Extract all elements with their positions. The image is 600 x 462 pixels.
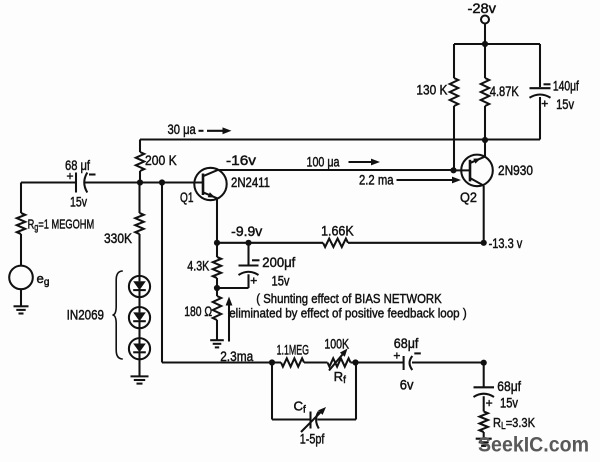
current label 30ua <box>168 122 232 137</box>
svg-text:100K: 100K <box>324 337 349 352</box>
transistor Q1 2N2411 <box>180 168 270 205</box>
svg-text:+: + <box>67 169 74 183</box>
capacitor 140uf <box>530 44 580 140</box>
wire 30ua feedback rail <box>140 137 540 143</box>
svg-text:180 Ω: 180 Ω <box>184 304 212 319</box>
wire Q2 collector <box>484 140 486 157</box>
svg-text:IN2069: IN2069 <box>67 308 104 323</box>
resistor 330K <box>104 183 144 277</box>
resistor 1.66K <box>321 224 354 247</box>
svg-text:-28v: -28v <box>468 1 497 16</box>
capacitor Cf variable 1-5pf <box>294 399 327 447</box>
note text <box>229 291 467 320</box>
svg-text:200 K: 200 K <box>145 153 177 168</box>
capacitor 68uf input <box>65 158 96 210</box>
resistor 180ohm <box>184 288 221 340</box>
svg-text:SeekIC.com: SeekIC.com <box>478 433 589 457</box>
svg-text:30 μa: 30 μa <box>168 122 197 137</box>
svg-text:-13.3 v: -13.3 v <box>489 236 523 251</box>
wire top rail <box>454 41 540 47</box>
resistor Rg 1 MEGOHM <box>17 183 94 266</box>
svg-text:+: + <box>393 349 400 363</box>
ground under eg <box>14 306 29 313</box>
capacitor 68uf 15v output <box>474 379 522 412</box>
diode 1N2069 D3 <box>129 338 150 359</box>
svg-text:100 μa: 100 μa <box>307 155 340 170</box>
svg-text:15v: 15v <box>70 195 87 210</box>
ground under 180ohm <box>210 340 224 347</box>
current label 100ua <box>307 155 381 170</box>
svg-text:Rg=1 MEGOHM: Rg=1 MEGOHM <box>28 218 95 234</box>
wire output drop <box>483 363 485 387</box>
label IN2069 with brace <box>67 271 123 359</box>
capacitor 68uf 6v <box>393 336 486 393</box>
resistor 130K <box>416 44 458 170</box>
svg-text:15v: 15v <box>272 274 290 289</box>
label -9.9v <box>231 224 262 239</box>
resistor 4.3K <box>187 243 221 291</box>
wire input rail <box>21 179 203 185</box>
wire -9.9v rail <box>214 240 487 246</box>
resistor 1.1MEG <box>277 343 328 367</box>
svg-text:eliminated by effect of po: eliminated by effect of positive feedbac… <box>229 305 467 320</box>
svg-text:6v: 6v <box>400 378 414 393</box>
svg-text:2N930: 2N930 <box>498 163 533 178</box>
wire diode link <box>138 297 140 307</box>
svg-text:1.66K: 1.66K <box>321 224 354 239</box>
svg-text:+: + <box>541 96 548 110</box>
svg-text:330K: 330K <box>104 231 132 246</box>
current arrow 2.3ma up <box>226 297 233 342</box>
resistor 200K <box>136 140 177 183</box>
svg-text:2.2 ma: 2.2 ma <box>359 173 394 188</box>
source eg <box>9 266 49 306</box>
wire supply drop <box>484 24 486 45</box>
label -16v <box>226 153 256 168</box>
resistor RL 3.3K <box>480 412 536 438</box>
wire Q1 emitter <box>216 199 218 243</box>
wire Q1 collector rail <box>218 167 470 173</box>
ground under RL <box>476 439 492 446</box>
wire left feedback drop <box>161 183 163 363</box>
svg-text:200μf: 200μf <box>262 255 295 270</box>
svg-text:1-5pf: 1-5pf <box>300 432 325 447</box>
svg-text:140μf: 140μf <box>553 79 579 94</box>
svg-text:2.3ma: 2.3ma <box>220 349 253 364</box>
ground under diode chain <box>131 376 149 383</box>
svg-text:2N2411: 2N2411 <box>231 175 270 190</box>
svg-text:Q2: Q2 <box>460 190 477 205</box>
svg-text:Q1: Q1 <box>180 190 194 205</box>
svg-text:+: + <box>250 274 257 288</box>
wire Cf loop <box>272 363 356 420</box>
current label 2.3ma <box>220 349 253 364</box>
capacitor 200uf <box>217 243 296 289</box>
label -13.3v <box>489 236 523 251</box>
diode 1N2069 D2 <box>129 307 150 328</box>
svg-text:( Shunting effect of BIAS N: ( Shunting effect of BIAS NETWORK <box>256 291 442 306</box>
resistor Rf 100K variable <box>324 337 403 387</box>
svg-text:15v: 15v <box>556 97 574 112</box>
transistor Q2 2N930 <box>460 155 533 205</box>
watermark SeekIC.com <box>478 433 589 457</box>
svg-text:4.87K: 4.87K <box>490 84 519 99</box>
wire bottom rail left <box>162 359 281 365</box>
svg-text:130 K: 130 K <box>416 82 447 97</box>
svg-text:68μf: 68μf <box>497 379 521 394</box>
svg-text:-16v: -16v <box>226 153 256 168</box>
wire diode chain to ground <box>138 359 140 376</box>
svg-text:+: + <box>486 396 493 410</box>
svg-text:15v: 15v <box>500 396 518 411</box>
diode 1N2069 D1 <box>129 276 150 297</box>
supply terminal -28v <box>468 1 497 24</box>
svg-text:-9.9v: -9.9v <box>231 224 262 239</box>
resistor 4.87K <box>481 44 519 140</box>
svg-text:RL=3.3K: RL=3.3K <box>493 415 535 432</box>
svg-text:1.1MEG: 1.1MEG <box>277 343 309 358</box>
wire Q2 emitter <box>483 186 485 243</box>
current label 2.2ma <box>359 173 461 188</box>
wire diode link <box>138 328 140 338</box>
svg-text:4.3K: 4.3K <box>187 259 209 274</box>
